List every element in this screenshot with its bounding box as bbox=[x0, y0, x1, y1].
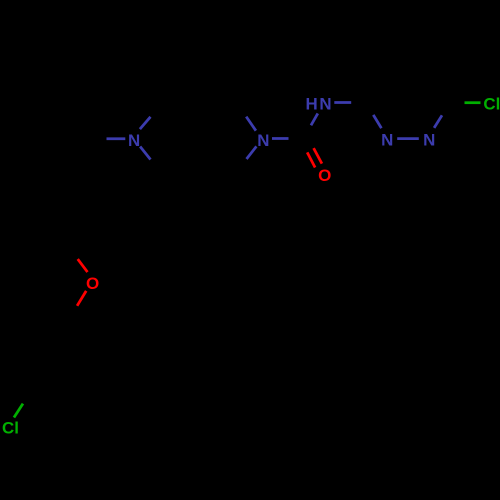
wire bond N_A lower-right half bbox=[140, 147, 150, 160]
svg-text:N: N bbox=[128, 131, 140, 150]
svg-text:Cl: Cl bbox=[483, 94, 500, 113]
wire bond N1-N2 bbox=[397, 137, 419, 140]
wire bond C3-N1 half bbox=[373, 115, 381, 128]
wire Cl right bond half bbox=[465, 101, 481, 104]
wire bond N_B to carbonyl half bbox=[272, 137, 289, 140]
svg-text:O: O bbox=[318, 166, 331, 185]
svg-text:N: N bbox=[381, 131, 393, 150]
wire ether O lower half bbox=[77, 291, 86, 306]
wire Cl bottom bond half bbox=[14, 404, 23, 418]
wire bond NH to carbonyl half bbox=[311, 113, 318, 125]
svg-text:Cl: Cl bbox=[2, 419, 19, 438]
wire bond NH to pyridazine half bbox=[334, 101, 351, 104]
svg-text:O: O bbox=[86, 274, 99, 293]
svg-text:N: N bbox=[319, 94, 331, 113]
svg-text:N: N bbox=[423, 130, 435, 149]
wire C=O double bond line a bbox=[307, 152, 315, 167]
wire bond N_A upper-right half bbox=[140, 117, 151, 129]
wire ether O upper half bbox=[78, 259, 88, 272]
wire C=O double bond line b bbox=[314, 148, 322, 164]
wire bond N_A left half bbox=[107, 137, 126, 140]
wire bond N2-C6 half bbox=[434, 115, 442, 128]
wire bond N_B upper-left half bbox=[246, 117, 256, 131]
svg-text:N: N bbox=[257, 131, 269, 150]
svg-text:H: H bbox=[305, 94, 317, 113]
wire bond N_B lower-left half bbox=[247, 146, 257, 159]
